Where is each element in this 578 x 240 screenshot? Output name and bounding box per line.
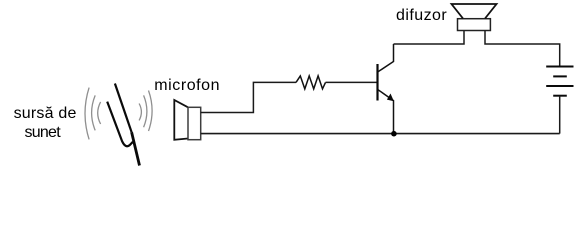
battery B1 plate short bottom [553, 95, 567, 97]
svg-text:microfon: microfon [154, 77, 220, 94]
wire: battery bottom lead [559, 96, 561, 134]
battery B1 plate long top [546, 66, 573, 68]
wire: bottom rail [201, 133, 560, 135]
battery B1 plate short [553, 75, 567, 77]
transistor Q1 emitter with arrow [378, 90, 394, 134]
wire: mic top lead [201, 82, 296, 112]
tuning fork right prong [115, 84, 132, 133]
junction node [391, 131, 397, 137]
sound wave arc right outer [149, 91, 153, 132]
transistor Q1 emitter arrowhead [387, 94, 394, 102]
svg-text:difuzor: difuzor [396, 7, 447, 24]
tuning fork left prong with U bottom [107, 102, 133, 147]
sound wave arc right inner [139, 104, 141, 121]
battery B1 plate long bottom [546, 85, 573, 87]
transistor Q1 collector [378, 44, 394, 72]
wire: speaker right lead to battery top [485, 31, 560, 67]
svg-text:sunet: sunet [25, 124, 62, 141]
microphone cone [174, 100, 188, 140]
wire: collector to speaker left lead [394, 31, 465, 45]
sound wave arc left inner [98, 102, 101, 124]
tuning fork handle [132, 132, 140, 165]
speaker cone [452, 4, 497, 19]
speaker body rectangle [458, 19, 491, 31]
sound wave arc right middle [144, 95, 147, 127]
svg-text:sursă de: sursă de [14, 105, 77, 122]
sound wave arc left middle [92, 95, 96, 130]
wire: resistor to base [326, 81, 378, 83]
transistor Q1 base bar [376, 64, 378, 101]
sound wave arc left outer [85, 88, 89, 140]
microphone body rectangle [188, 107, 201, 139]
resistor R [296, 76, 326, 89]
